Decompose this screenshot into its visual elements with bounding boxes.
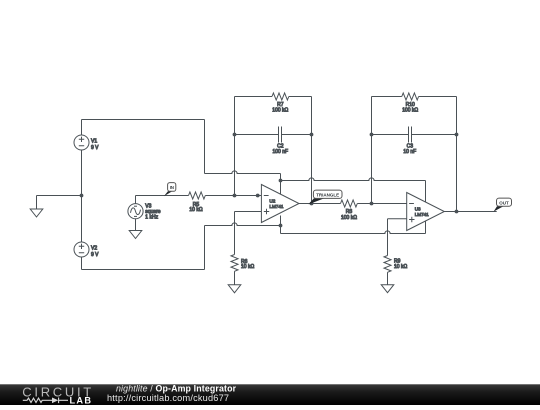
svg-text:OUT: OUT [499,200,509,205]
wire V- rail to U3 with hop over R9 branch [281,231,426,234]
op-amp U3 LM741 [407,193,445,231]
ground R9 [381,285,394,293]
wire C3 left lead [372,134,409,136]
label R10 [402,102,418,114]
node R10C3 left tap [370,202,373,205]
resistor R5 [189,192,206,199]
voltage source V2 [74,242,89,257]
wire C2 right lead [282,134,312,136]
wire mid junction to V2 top [81,196,83,243]
svg-text:V1: V1 [91,138,97,144]
label R7 [272,102,288,114]
wire R10 top right lead [419,96,457,98]
resistor R9 [384,256,391,273]
label R6 [241,259,254,270]
net flag TRIANGLE [309,190,342,204]
wire feedback right vertical U3 [456,97,458,212]
svg-text:10 kΩ: 10 kΩ [394,264,407,270]
wire U2 V+ pin [280,181,282,195]
wire V- rail to U2 with hop over R6 branch [205,223,281,226]
svg-text:100 kΩ: 100 kΩ [402,108,418,114]
label V1 [91,138,99,151]
wire V+ riser down [204,120,206,174]
wire R9 branch down [387,219,389,256]
wire U3 V+ pin [425,181,427,203]
wire R9 to ground [387,272,389,284]
wire C3 right lead [412,134,457,136]
wire U2 plus input [235,211,262,213]
resistor R6 [231,255,238,272]
svg-text:http://circuitlab.com/ckud677: http://circuitlab.com/ckud677 [107,393,229,403]
wire U2 V- pin [280,216,282,226]
svg-text:100 kΩ: 100 kΩ [272,108,288,114]
svg-text:10 kΩ: 10 kΩ [189,207,202,213]
node output tap [455,210,458,213]
wire R5 to U2 inverting input [205,195,261,197]
wire top rail from V1 [82,119,205,121]
wire R8 to U3 [357,203,406,205]
label V2 [91,245,99,257]
node V1-V2-ground junction [80,194,83,197]
wire bottom run to riser [82,269,205,271]
wire U3 output [444,211,496,213]
node U2 V- junction [279,224,282,227]
capacitor C2 [279,127,282,143]
wire R10 top left lead [372,96,402,98]
op-amp U2 LM741 [261,185,299,223]
svg-text:100 nF: 100 nF [273,149,289,155]
label R9 [394,259,407,271]
wire feedback right vertical U2 [311,97,313,204]
wire V+ rail to U3 with hops [281,178,426,181]
footer title text [107,383,237,403]
node C2 left [233,133,236,136]
label R5 [189,202,202,213]
wire V- jog down [280,226,282,234]
svg-text:100 kΩ: 100 kΩ [341,215,357,221]
wire feedback left vertical U2 [234,97,236,196]
node U2 V+ junction [279,179,282,182]
wire U2 output to U3 inverting input [299,203,341,205]
ground V3 [129,231,142,239]
svg-text:nightlite / Op-Amp Integrator: nightlite / Op-Amp Integrator [116,383,237,393]
wire U3 V- pin [425,221,427,233]
wire V1 top to top rail [81,120,83,136]
logo CIRCUIT LAB [22,384,94,405]
ground left [30,196,43,218]
node U2 inverting pin [256,194,259,197]
net flag OUT [494,198,512,212]
wire C2 left lead [235,134,279,136]
wire V+ horizontal with hop over feedback [205,171,281,174]
svg-text:LAB: LAB [70,395,93,405]
svg-text:1 kHz: 1 kHz [145,214,158,220]
svg-text:LM741: LM741 [269,204,283,209]
wire R6 to ground [234,271,236,285]
ground R6 [228,285,241,293]
svg-text:LM741: LM741 [415,212,429,217]
wire V2 bottom [81,257,83,270]
label R8 [341,209,357,221]
svg-text:9 V: 9 V [91,252,99,258]
wire V- riser up [204,226,206,270]
label C2 [273,143,289,154]
wire R7 top left lead [235,96,273,98]
svg-text:10 kΩ: 10 kΩ [241,264,254,270]
svg-text:10 nF: 10 nF [403,149,416,155]
wire R7 top right lead [289,96,312,98]
label V3 [145,204,161,221]
voltage source V1 [74,135,89,150]
wire U3 plus input [388,218,407,220]
footer bar [0,384,540,405]
wire V+ drop to rail [280,174,282,181]
wire R6 branch down [234,212,236,255]
wire feedback left vertical U3 [371,97,373,204]
svg-text:U3: U3 [415,207,421,212]
net flag IN [164,183,176,197]
resistor R7 [272,93,289,100]
svg-text:U2: U2 [269,199,275,204]
wire V1 bottom to mid junction [81,150,83,196]
node feedback tap on inverting input [233,194,236,197]
wire IN line V3 to R5 [136,195,189,197]
node feedback right tap U2 output [310,202,313,205]
svg-text:TRIANGLE: TRIANGLE [316,193,339,198]
svg-text:9 V: 9 V [91,145,99,151]
resistor R8 [341,200,358,207]
node C3 right [455,133,458,136]
node C3 left [370,133,373,136]
capacitor C3 [409,127,412,143]
wire ground tap left [37,195,82,197]
node C2 right [310,133,313,136]
voltage source V3 square [128,204,143,219]
svg-text:IN: IN [170,185,174,190]
wire V3 bottom stub [135,219,137,231]
svg-text:V2: V2 [91,245,97,251]
wire V3 top stub [135,196,137,204]
label C3 [403,143,416,154]
resistor R10 [402,93,419,100]
